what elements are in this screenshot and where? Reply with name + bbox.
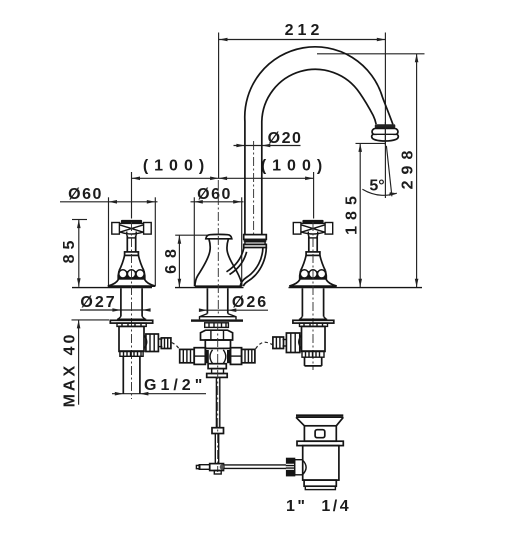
spout centerline [217,180,219,235]
handle R cross top edge [301,222,325,224]
center collar [205,323,229,328]
svg-text:5°: 5° [369,178,384,195]
lever horizontal rod [224,464,287,466]
lever hatch ball [220,464,225,469]
handle L bead band [119,276,145,279]
center tee left rings [180,349,195,362]
spout gooseneck inner wall [262,69,376,235]
handle L collar [125,252,139,256]
valve L hose dashes [172,343,180,350]
valve R collar [300,323,328,326]
drain flange [297,441,343,445]
spout collar ring middle [245,242,265,245]
dim 298 arrow bottom [415,279,419,288]
center neck [212,369,224,374]
drain slot hole [315,430,325,438]
handle R cross right end [325,223,333,235]
dim (100) arrow right [305,177,314,181]
dim 212 line [219,39,385,41]
center tee right rings [242,349,255,362]
svg-text:185: 185 [344,190,361,235]
angle arc [362,189,396,195]
tip reference line through aerator [384,122,386,145]
valve R tail pipe [304,357,306,366]
handle R bell left [301,255,307,271]
handle L base edge [108,285,155,287]
dim 298 ext top [317,53,425,55]
aerator body [372,128,399,141]
dim (100) arrow left [132,177,141,181]
center body block [205,340,230,348]
lever pivot block [210,464,224,471]
valve R flare [299,317,327,321]
center deck plate [191,319,243,321]
dim 85 line [78,220,80,287]
dim MAX40 tick [72,319,110,321]
valve L collar [117,323,146,326]
handle L bell right [138,255,144,271]
dim (100) ext right [313,172,315,219]
handle L cross bottom curve [119,232,143,234]
center tee ball arcs [210,350,226,364]
center below-deck centerline [217,322,219,472]
handle R bell right [320,255,326,271]
svg-text:Ø60: Ø60 [197,186,232,203]
handle R skirt left [289,271,300,286]
valve L shank [120,288,122,316]
valve L tail pipe [122,356,124,393]
dim (100) arrows center [210,177,219,181]
valve L thread block [120,351,143,356]
dim G1/2 line [112,393,206,395]
valve R outlet ball [299,336,302,349]
svg-text:G1/2": G1/2" [144,377,206,394]
handle L stem [126,236,128,252]
valve L outlet end fitting [161,338,171,349]
svg-text:85: 85 [61,236,78,264]
svg-text:68: 68 [163,242,180,274]
rod coupling [212,428,224,434]
dim 185 arrow top [358,143,362,152]
svg-text:MAX 40: MAX 40 [62,332,79,408]
dim phi27 arrows outside [112,308,121,312]
valve R body [302,326,326,351]
dim 212 arrow right [377,38,386,42]
dim 68 tick top [175,234,208,236]
handle R cross spokes [301,225,325,233]
spout collar dark band [244,239,267,241]
drain funnel sides [296,417,343,426]
svg-text:212: 212 [285,22,324,39]
dim phi26 line [200,309,269,311]
dim phi60 left arrows [109,200,118,204]
spout gooseneck outer wall [245,47,393,235]
valve R base plate [293,320,334,323]
handle R base edge [289,285,336,287]
baseline deck center [175,287,244,289]
dim phi60 center ext lines [193,197,195,286]
pop-up rod lower [214,434,216,464]
center flange [207,374,228,378]
svg-text:1" 1/4: 1" 1/4 [286,498,351,515]
dim 85 arrows [77,220,81,229]
dim phi20 arrows outside [236,144,245,148]
svg-text:(100): (100) [261,158,328,175]
dim 212 arrow left [219,38,228,42]
valve L outlet shaft [158,338,162,340]
lever left bar [199,465,210,470]
spray direction line 5deg [386,146,392,197]
baseline deck right [289,287,423,289]
handle L cross spokes [119,225,143,233]
handle L centerline [131,222,133,399]
handle R collar [306,252,320,256]
lever left tip [196,465,199,468]
handle L cross right end [144,223,152,235]
center tee left nut [194,348,205,365]
drain side port [295,460,303,475]
pop-up rod upper [215,377,217,427]
center lower block [208,364,226,369]
drain tailpiece [304,480,336,486]
valve R thread block [302,351,324,357]
handle R stem [308,236,310,252]
drain funnel top [296,414,343,416]
dim 185 ext top [356,142,386,144]
dim 68 arrows [178,235,182,244]
spout body left side [195,239,210,286]
center hex nut [201,330,233,340]
dim 185 line [359,143,361,287]
dim phi20 line [234,145,301,147]
handle R bead band [300,276,326,279]
valve L flare [117,317,146,321]
handle L beads [126,272,129,277]
handle R centerline [312,222,314,370]
spout pipe centerline [253,141,255,235]
dim MAX40 arrow up [77,320,81,329]
baseline deck left [72,287,152,289]
svg-text:Ø60: Ø60 [68,186,103,203]
angle arrow [389,192,397,196]
svg-text:(100): (100) [143,158,210,175]
dim phi26 arrows outside [199,308,208,312]
dim (100) ext left [131,172,133,219]
svg-text:298: 298 [400,145,417,190]
dim MAX40 line [78,320,80,405]
knurled knob [286,458,295,477]
handle L bell left [119,255,125,271]
valve L outlet nut [146,334,159,352]
valve R shank [301,288,303,316]
center shank [206,288,208,313]
valve L body [119,326,144,351]
valve R outlet shaft [283,339,287,341]
handle R skirt right [326,271,337,286]
spout body cap [206,234,232,238]
valve R outlet end fitting [273,337,284,349]
lever bottom tab [214,471,221,475]
svg-text:Ø20: Ø20 [268,130,303,147]
valve L base plate [110,320,152,323]
drain lower body [303,446,339,481]
extension line spout center [218,33,220,179]
dim 185 arrow bottom [358,279,362,288]
handle R cross left end [293,223,301,235]
spout elbow inner band [227,248,244,272]
dim 298 line [416,54,418,287]
handle L cross left end [112,223,120,235]
valve L outlet ball [144,336,147,349]
handle L skirt right [144,271,155,286]
dim phi60 center arrows [194,200,203,204]
spout body right side [227,239,242,286]
dim phi27 line [80,309,148,311]
handle L hub sides [126,232,128,236]
dim 85 tick top [72,219,87,221]
dim 68 line [178,235,180,287]
spout elbow outer band [243,248,266,287]
aerator band [375,124,396,128]
svg-text:Ø27: Ø27 [80,294,116,311]
dim phi60 left ext lines [108,197,110,286]
center tee right nut [230,348,241,365]
handle R cross bottom curve [301,232,325,234]
dim G1/2 arrows outside [115,392,124,396]
svg-text:Ø26: Ø26 [232,294,268,311]
extension line spout tip [384,33,386,199]
handle R cap [302,220,323,223]
handle L cross top edge [119,222,143,224]
handle L cap [121,220,142,223]
center tee column [204,348,206,363]
valve R outlet nut [286,333,299,353]
valve R hose dashes [256,342,273,349]
center tee dark rings [205,350,209,363]
spout body base line [195,285,242,287]
dim phi60 center line [191,201,244,203]
handle R hub sides [307,232,309,236]
handle L skirt left [108,271,119,286]
spout collar ring top [244,235,267,240]
dim phi60 left line [60,201,158,203]
handle R beads [308,272,311,277]
dim 298 arrow top [415,54,419,63]
center flare [200,314,237,320]
dim (100) line [132,177,314,179]
spout collar ring bottom [244,244,267,247]
drain upper body [304,426,336,441]
aerator mid line [372,133,398,135]
